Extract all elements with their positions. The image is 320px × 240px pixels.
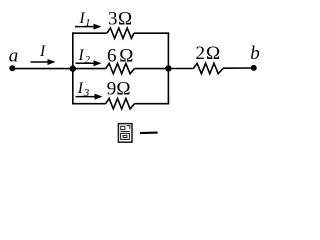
junction node (right): [165, 65, 171, 71]
wire 2 ohm to node b: [223, 67, 254, 69]
svg-text:2: 2: [85, 54, 91, 66]
svg-text:2: 2: [196, 43, 206, 64]
resistor 6 ohm: [106, 63, 135, 73]
svg-text:3: 3: [83, 87, 90, 99]
current I arrow: [31, 59, 56, 65]
svg-text:Ω: Ω: [119, 45, 133, 66]
svg-text:Ω: Ω: [206, 43, 220, 64]
wire middle branch left segment: [73, 68, 106, 70]
svg-text:I: I: [77, 80, 84, 97]
svg-text:9: 9: [107, 79, 117, 100]
svg-text:Ω: Ω: [116, 79, 130, 100]
svg-text:3: 3: [108, 9, 118, 30]
wire bottom branch right segment: [134, 103, 169, 105]
junction node (left): [70, 65, 76, 71]
wire vertical left bus: [72, 32, 74, 104]
svg-text:Ω: Ω: [118, 9, 132, 30]
wire vertical right bus: [167, 32, 169, 104]
wire middle branch right segment: [134, 68, 168, 70]
wire top branch right segment: [134, 32, 169, 34]
caption character yi (one): [140, 132, 158, 135]
svg-text:I: I: [78, 47, 85, 64]
node b: [251, 65, 257, 71]
svg-text:b: b: [250, 43, 259, 64]
svg-text:6: 6: [107, 45, 117, 66]
caption character tu (figure) drawn as paths: [118, 124, 132, 143]
wire top branch left segment: [72, 32, 107, 34]
wire a to left junction: [12, 68, 73, 70]
svg-text:I: I: [39, 43, 46, 60]
node a: [9, 65, 15, 71]
svg-text:a: a: [9, 46, 18, 67]
current I2 arrow: [76, 60, 102, 66]
current I1 arrow: [75, 24, 102, 30]
wire bottom branch left segment: [72, 103, 106, 105]
resistor 9 ohm: [106, 99, 135, 109]
svg-text:1: 1: [85, 17, 91, 29]
resistor 2 ohm: [193, 63, 223, 73]
current I3 arrow: [76, 94, 103, 100]
wire right junction to 2 ohm: [168, 68, 193, 70]
resistor 3 ohm: [107, 28, 134, 38]
